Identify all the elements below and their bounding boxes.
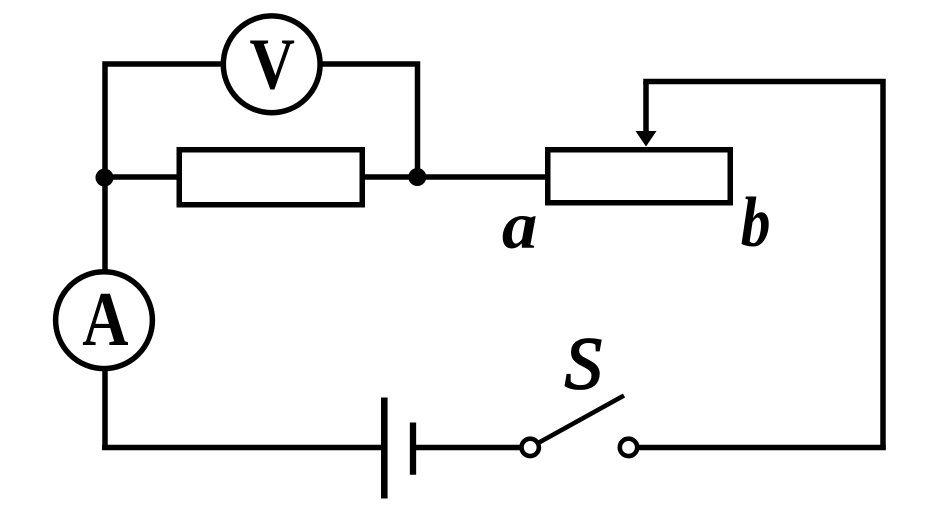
voltmeter V (circle) (223, 16, 320, 113)
battery positive plate (long) (381, 398, 388, 499)
wire: bottom horizontal from left rail to battery positive plate (102, 445, 383, 451)
wire: bottom horizontal from battery negative plate to switch left terminal (413, 445, 522, 451)
switch S left contact circle (522, 439, 539, 456)
wire: rheostat wiper stem (643, 82, 649, 135)
wire: right rail from bottom up to rheostat wiper feed (643, 82, 883, 451)
node: right junction dot (408, 168, 426, 186)
wire: bottom horizontal from switch right terminal to right rail (637, 445, 886, 451)
svg-text:S: S (565, 324, 602, 406)
svg-text:A: A (82, 278, 128, 363)
switch S right contact circle (620, 439, 637, 456)
wire: voltmeter parallel loop (left rail up, across top, down to right junction) (105, 64, 418, 180)
ammeter A (circle) (56, 272, 153, 369)
rheostat wiper arrowhead (636, 131, 657, 147)
resistor R (rectangle) (179, 150, 362, 205)
svg-text:ɑ: ɑ (502, 188, 538, 263)
wire: main horizontal line from left node through R to rheostat terminal a (102, 174, 548, 180)
switch S lever arm (540, 396, 625, 443)
svg-text:V: V (249, 23, 294, 104)
rheostat resistance body (rectangle) (548, 150, 731, 203)
node: left junction dot (96, 169, 114, 187)
wire: left rail from node down through ammeter to bottom wire (102, 174, 108, 450)
svg-text:b: b (741, 184, 771, 262)
battery negative plate (short) (410, 423, 416, 475)
